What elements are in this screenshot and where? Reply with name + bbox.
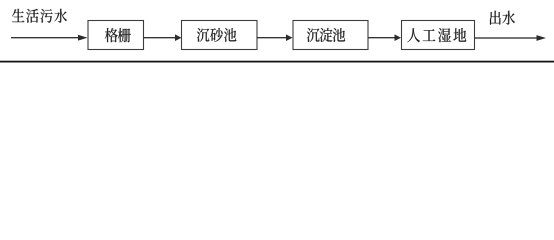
wire arrow A5 effluent out xyxy=(475,35,547,41)
process box 格栅 (bar screen) xyxy=(88,21,144,50)
text 沉淀池 xyxy=(307,28,345,42)
label 出水 (effluent) xyxy=(490,11,515,25)
process box 人工湿地 (constructed wetland) xyxy=(402,21,475,50)
page rule (thick bottom border line) xyxy=(0,61,554,63)
text 人工湿地 xyxy=(407,28,466,42)
text 沉砂池 xyxy=(197,28,237,42)
process box 沉淀池 (sedimentation tank) xyxy=(293,21,368,50)
text 格栅 xyxy=(105,28,131,42)
process box 沉砂池 (grit chamber) xyxy=(182,21,258,50)
wire arrow A3 沉砂池 -> 沉淀池 xyxy=(257,34,293,41)
wire arrow A4 沉淀池 -> 人工湿地 xyxy=(368,34,401,41)
wire arrow A2 格栅 -> 沉砂池 xyxy=(144,34,182,41)
wire arrow A1 influent -> 格栅 xyxy=(11,35,88,41)
label 生活污水 (influent) xyxy=(12,9,67,23)
